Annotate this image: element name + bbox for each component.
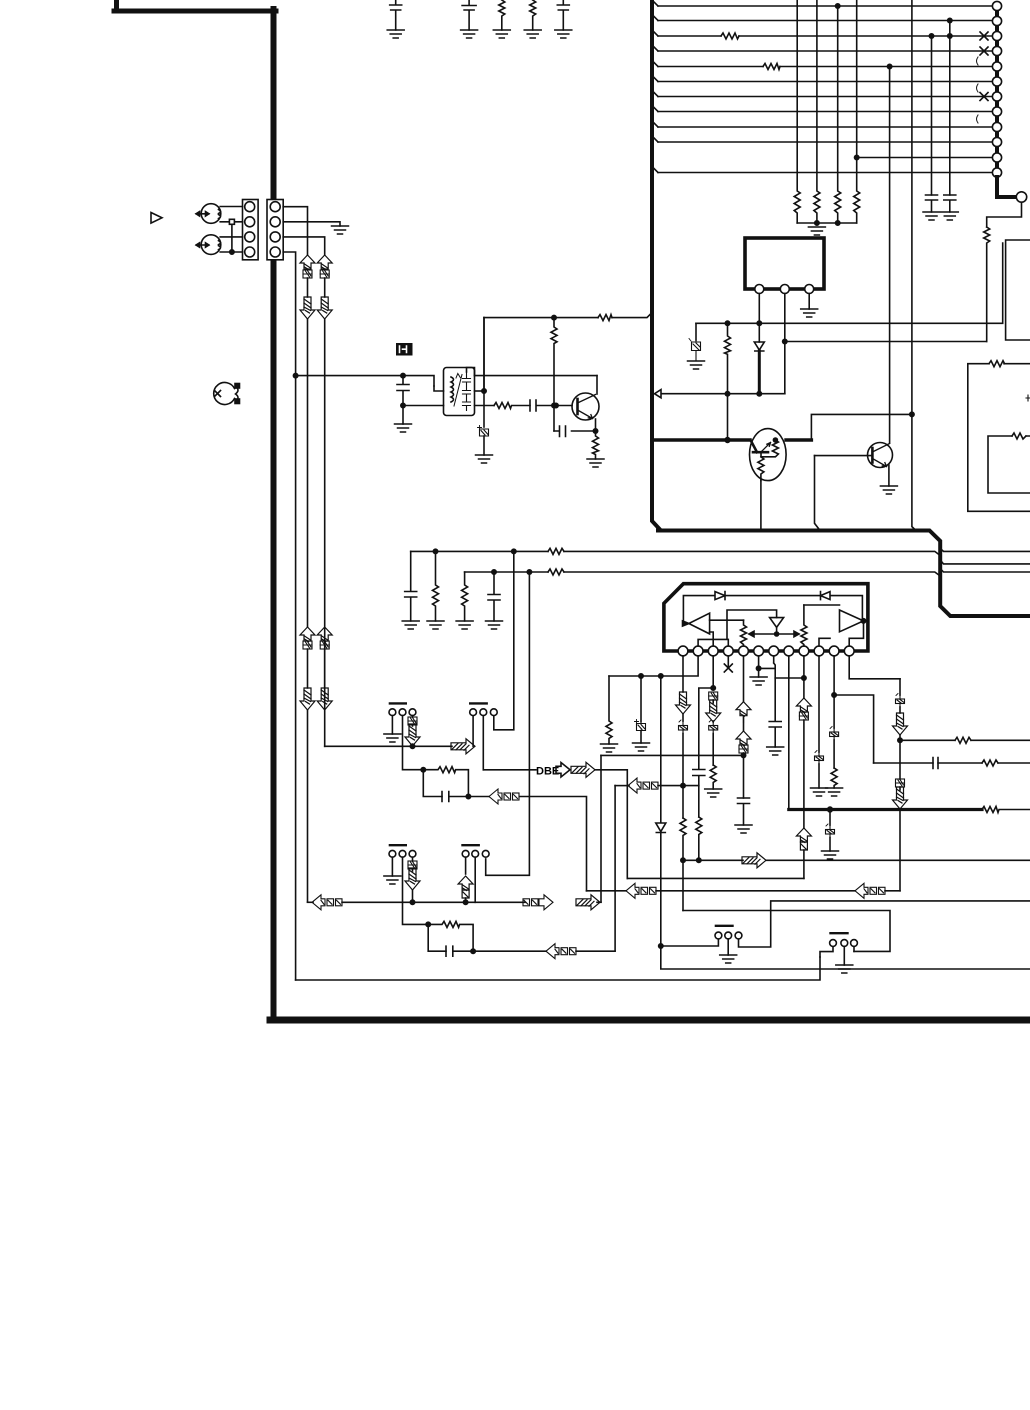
wire y969 <box>661 946 1030 969</box>
wire y902 end <box>597 901 601 903</box>
IC opamp2 out jog to pin12 <box>849 621 863 646</box>
pin7 column <box>774 656 776 721</box>
H3 mid circle column <box>403 857 429 924</box>
up connector arrow pair1 right <box>317 255 332 270</box>
electrolytic cap CE1 <box>478 426 489 456</box>
down connector arrow1 right <box>317 297 332 319</box>
wire pin6 to pin7 <box>759 667 776 669</box>
edge connector pins P1-P12 <box>992 1 1001 177</box>
wire into filter lower <box>403 405 444 407</box>
diode col continues <box>660 833 662 947</box>
pin10 column <box>818 656 820 752</box>
ground H3 <box>384 876 401 884</box>
thick audio out wire y809 <box>789 808 982 811</box>
digital transistor Q1 <box>750 429 787 481</box>
header H2 circles <box>470 709 497 716</box>
wire from pin to resistor column <box>987 203 1022 228</box>
wire y317 <box>484 313 652 318</box>
resistor R-740 <box>955 737 971 743</box>
node at x911 y414 <box>910 412 914 416</box>
pin11 column continue <box>833 695 835 728</box>
transistor Q2 <box>868 443 893 468</box>
resistor R-rail2 <box>548 569 564 575</box>
audio IC U1 box <box>664 584 868 651</box>
ground pin3col <box>705 789 722 797</box>
up arrow pin9 with boxes <box>796 698 811 720</box>
IC diode D2 <box>821 592 831 600</box>
resistor col3 <box>835 6 841 223</box>
thick wire Q1 to corner <box>786 438 811 441</box>
H1 left circle ground <box>391 716 393 734</box>
node w11 x856 <box>855 155 859 159</box>
down connector arrow2 right <box>317 688 332 710</box>
rail res column x435 <box>433 551 439 621</box>
mesh1 capacitor <box>442 792 468 802</box>
wire y951 to x615 <box>576 950 615 952</box>
wire y980 <box>296 957 820 980</box>
module pin 1 <box>755 285 764 294</box>
filter mid-right pin wire <box>475 390 485 392</box>
node w1 x837 <box>836 4 840 8</box>
arc mark 1 <box>977 57 979 65</box>
DBE right arrow outline <box>556 763 570 778</box>
up connector arrow pair1 left <box>300 255 315 270</box>
IC pot2 top wire to opamp2 <box>804 604 840 606</box>
mesh1 resistor <box>423 767 468 797</box>
header H6 bar <box>831 932 848 934</box>
node w3 x931 <box>929 34 933 38</box>
arc mark 2 <box>977 84 979 92</box>
bus wire 5 with resistor <box>658 66 992 68</box>
node opamp2 output <box>861 619 865 623</box>
ground zener <box>688 361 705 369</box>
boxes pair2 right <box>320 641 329 649</box>
ground H5 <box>720 955 737 963</box>
capacitor C-top1 <box>387 0 404 38</box>
IC down triangle <box>770 618 784 628</box>
capacitor C-763 inline <box>933 758 938 769</box>
mesh2 node left <box>426 922 430 926</box>
pin2 column to left rail <box>609 656 698 676</box>
no-connect x mark wire4 <box>980 47 988 55</box>
node rail2 x494 <box>492 570 496 574</box>
CN2 row1 wire <box>283 207 307 255</box>
resistor R-boxB-inner <box>1012 433 1026 439</box>
vertical x615 <box>614 786 616 951</box>
IC pin10 inner stub <box>819 638 830 646</box>
left arrow boxes y951 <box>546 944 576 959</box>
H2 left circle stub <box>472 716 474 747</box>
mesh2 capacitor <box>446 946 473 956</box>
ground x830 <box>822 851 839 859</box>
H6 left circle col <box>820 946 833 957</box>
board frame top-left vertical <box>114 0 119 11</box>
resistor col2 <box>814 0 820 223</box>
diode D-660 <box>656 823 666 833</box>
IC opamp1 triangle <box>689 613 710 634</box>
no-connect x mark wire7 <box>980 93 988 101</box>
ground C-IF <box>395 424 412 432</box>
node w2 x949 <box>948 18 952 22</box>
wire y902 left <box>308 901 314 903</box>
node mesh1 right <box>466 794 470 798</box>
pin6 stub <box>758 656 760 669</box>
wire y860 continue <box>766 859 1030 861</box>
node Q3 emitter <box>593 429 597 433</box>
wire jog into filter upper <box>434 386 444 391</box>
tiny cap pin11 <box>830 727 839 769</box>
main thick bus horizontal <box>658 531 1030 617</box>
capacitor C-col-931 <box>926 195 938 212</box>
wire y785 continue <box>658 785 699 787</box>
node pin2 on wire342 <box>783 339 787 343</box>
resistor R-w5 <box>763 64 780 70</box>
long vertical wire x324 <box>324 319 326 746</box>
pin12 column <box>849 656 900 679</box>
capacitor C-IF <box>397 376 409 406</box>
IC down triangle tip wire <box>776 627 778 634</box>
Q2 base wire <box>815 455 873 457</box>
bus wire 7 <box>658 96 992 98</box>
node rail1 x435 <box>433 549 437 553</box>
resistor R-top1 <box>493 0 510 38</box>
x900 continue <box>899 735 901 779</box>
left arrow boxes y890b <box>855 883 885 898</box>
mesh2 resistor <box>428 921 473 951</box>
pin9 column continue <box>803 720 805 828</box>
DBE rail y770 <box>483 769 536 771</box>
pin9 column <box>803 656 805 698</box>
wire y890 to x900 <box>885 890 900 892</box>
jack J2 <box>196 235 221 255</box>
wire y755 <box>601 754 744 756</box>
wire y890 continue <box>656 890 855 892</box>
node x900 y740 <box>898 738 902 742</box>
no-connect x pin4 <box>724 664 732 672</box>
left arrow boxes y902 <box>312 895 342 910</box>
node rail2 x529 <box>527 570 531 574</box>
vertical x601 <box>600 755 602 902</box>
resistor R-554 <box>551 318 557 431</box>
node diode col <box>659 674 663 678</box>
wire y746 <box>325 745 452 747</box>
thick cathode wire to node <box>758 351 761 394</box>
resistor R-base <box>494 403 530 409</box>
IC inner rail A <box>698 610 777 646</box>
header H6 circles <box>830 940 858 947</box>
IC pot1 <box>741 620 747 646</box>
edge connector body line <box>995 6 999 177</box>
thick branch wire to Q1 <box>652 438 750 441</box>
ground pin5 <box>735 825 752 833</box>
node pin11 y695 <box>832 693 836 697</box>
H1 mid circle column <box>403 716 424 770</box>
IF label black box <box>396 343 413 356</box>
up arrow H4 <box>458 876 473 902</box>
jack J1 wire top <box>220 206 242 208</box>
H3 right col to wire y902 <box>412 890 414 902</box>
down connector arrow2 left <box>300 688 315 710</box>
resistor col x609 <box>606 676 612 744</box>
vertical x484 electrolytic column <box>483 318 485 427</box>
pin8 column to thick wire <box>788 656 790 810</box>
bus wire 12 <box>658 172 992 174</box>
pin5 column <box>743 656 745 702</box>
rail cap column x494 <box>488 572 500 621</box>
wire y878 <box>627 877 804 879</box>
bus wire 6 <box>658 81 992 83</box>
IC opamp2 triangle <box>840 610 864 632</box>
left arrow boxes y785 <box>628 778 658 793</box>
H6 right circle stub <box>853 946 855 951</box>
common rail under resistors <box>797 222 857 224</box>
boxes pair1 left <box>303 270 312 278</box>
right box A (cut off) <box>1006 240 1030 340</box>
H4 mid circle to wire y902 <box>474 857 476 902</box>
node resistor col on wire323 <box>725 321 729 325</box>
ground x494 <box>486 621 503 629</box>
ground Q2 emitter <box>880 486 897 494</box>
wire y342 <box>785 341 987 343</box>
up connector arrow pair2 right <box>317 627 332 642</box>
tiny cap pin1 col <box>679 714 688 818</box>
vertical x513 to header H2 <box>494 551 514 729</box>
Q3 emitter junction <box>595 419 597 431</box>
node pin6 <box>756 666 760 670</box>
transistor Q3 <box>572 393 599 420</box>
bus wire 10 <box>658 141 992 143</box>
rail cap column x410 <box>405 551 417 621</box>
link wire between jack grounds <box>231 224 233 252</box>
bus wire 4 <box>658 50 992 52</box>
wire y860 <box>683 859 743 861</box>
supply rail wire2 y572 <box>465 569 1030 577</box>
ground CE2 <box>633 743 650 751</box>
module pin 3 <box>805 285 814 294</box>
resistor R-emitter <box>593 431 599 459</box>
node rail1 x513 <box>512 549 516 553</box>
ground x410 <box>402 621 419 629</box>
wire y902 mid <box>342 901 525 903</box>
long vertical from w5 to Q2 collector <box>889 67 891 444</box>
shielded module box U2 <box>745 238 824 289</box>
ground R-emitter <box>587 459 604 467</box>
diode D-pin1 <box>754 342 764 351</box>
Q3 collector wire <box>596 376 598 394</box>
bus wire 1 to connector <box>658 5 992 7</box>
boxes pair2 left <box>303 641 312 649</box>
node x830 on thick wire <box>828 807 833 812</box>
down connector arrow1 left <box>300 297 315 319</box>
wire y785 <box>615 785 629 787</box>
node H4 up arrow y902 <box>463 900 467 904</box>
up arrow pin5b with boxes <box>736 731 751 753</box>
node x554 on y317 <box>552 315 556 319</box>
x900 continue to y891 <box>899 809 901 891</box>
IC diode rail <box>683 596 862 624</box>
resistor col4 <box>854 0 860 223</box>
filter bottom-right wire <box>475 405 495 407</box>
ground pin6 <box>750 677 767 685</box>
wire pin9 to pin7col <box>775 677 804 679</box>
header H5 circles <box>715 932 742 939</box>
node resistor col on wire394 <box>725 392 729 396</box>
node resistor col on thick branch <box>725 438 730 443</box>
IC diode D1 <box>715 592 725 600</box>
resistor R-pin11 <box>831 768 837 788</box>
bus wire 2 <box>658 20 992 22</box>
connector block CN1 <box>243 200 259 260</box>
node pin3 y688 <box>711 686 715 690</box>
boxes+down arrow pin3 col <box>706 692 721 722</box>
wire y946 to H5 <box>661 939 719 946</box>
node cap403 top <box>401 373 405 377</box>
tiny mark right edge <box>1026 395 1030 401</box>
node H1 right col y746 <box>410 744 414 748</box>
H4 left circle to up arrow <box>465 857 467 874</box>
right arrow y860 <box>742 853 766 868</box>
IC pins 1-12 <box>678 646 854 656</box>
cap to ground stub <box>402 406 404 425</box>
node rail x816 <box>815 221 819 225</box>
ground pin7 <box>767 747 784 755</box>
bus wire taps <box>652 0 658 6</box>
pin1 column <box>682 656 684 692</box>
left arrow boxes y796 <box>489 789 519 804</box>
node pin5 y755 <box>741 753 745 757</box>
capacitor C-base <box>530 400 556 411</box>
electrolytic CE2 <box>635 676 646 743</box>
wire y910 from pin1col <box>683 911 890 952</box>
node H3 right col y902 <box>410 900 414 904</box>
ground H1 <box>384 734 401 742</box>
IC rail arrow into opamp1 <box>683 621 690 626</box>
ground under C-949 <box>941 212 958 220</box>
thick wire from connector bottom <box>997 177 1015 197</box>
board frame bottom horizontal <box>270 1017 1030 1024</box>
main thick bus vertical <box>652 0 660 530</box>
base wire to Q3 <box>556 405 572 407</box>
ground H6 <box>836 965 853 973</box>
zener column from wire323 <box>695 323 697 340</box>
resistor col1 <box>794 0 800 223</box>
no-connect x mark wire3 <box>980 32 988 40</box>
resistor R-698col <box>696 817 702 860</box>
big down arrow x900 <box>893 713 908 735</box>
right arrow y902 <box>576 895 600 910</box>
node on x295 <box>293 373 297 377</box>
ground under resistor rail <box>808 227 825 235</box>
collector rail y375 <box>475 375 598 377</box>
up arrow pin5a <box>736 702 751 731</box>
test square on J1 wire <box>229 219 234 224</box>
right box B outer <box>968 364 1030 512</box>
header H3 bar <box>390 844 406 846</box>
node x484 on filter pin <box>482 389 486 393</box>
header H1 circles <box>389 709 416 716</box>
pin4 stub with x <box>727 656 729 667</box>
vertical x529 to header H4 <box>486 572 530 875</box>
wire corner up to y414 <box>811 414 912 440</box>
ground pin11 <box>826 788 843 796</box>
header H4 circles <box>462 850 489 857</box>
CN2 row3 wire <box>283 237 325 255</box>
module pin 2 <box>780 285 789 294</box>
resistor col continues to thick bus <box>727 394 729 440</box>
vertical x307 to corner <box>307 710 309 902</box>
diode column x660 <box>660 676 662 823</box>
wire y763 <box>874 762 1030 764</box>
ground x435 <box>427 621 444 629</box>
pin6 ground stub <box>758 668 760 677</box>
bus tap wire y564 <box>940 560 1030 564</box>
wire y901 right <box>739 901 1030 947</box>
Q2 base wire corner to bus <box>815 456 819 529</box>
open triangle marker <box>151 213 162 224</box>
IC pin3 inner stub <box>710 632 714 646</box>
node pin1col on wire394 <box>757 392 761 396</box>
module pin2 wire down <box>784 294 786 394</box>
resistor R-right-edge <box>984 227 990 342</box>
capacitor C-col-949 <box>944 195 956 212</box>
module pin3 ground stub <box>808 294 810 310</box>
wire y890 <box>587 890 627 892</box>
capacitor C-emitter <box>554 426 596 437</box>
resistor R-763 inline <box>982 760 998 766</box>
down connector arrow pin1 <box>676 692 691 714</box>
tiny cap pin10 <box>815 751 824 789</box>
header H4 bar <box>463 844 479 846</box>
pin5 column continue <box>743 753 745 798</box>
resistor R-boxB-top <box>989 361 1005 367</box>
board frame left vertical <box>271 9 277 1020</box>
node x554 on base wire <box>552 403 556 407</box>
wire y695 to x873 <box>834 695 874 763</box>
ceramic filter CF1 <box>444 368 475 416</box>
jack J1 wire bottom <box>220 221 242 223</box>
capacitor C-pin5 <box>738 798 750 825</box>
arc mark 3 <box>977 115 979 123</box>
node x698 y860 <box>697 858 701 862</box>
corner x484 down <box>483 318 485 391</box>
IC opamp2 out to edge <box>864 620 868 622</box>
tiny cap x900 <box>896 694 905 714</box>
mesh1 node left <box>421 768 425 772</box>
module pin1 wire down <box>758 294 760 343</box>
wire y770 to corner <box>595 770 627 879</box>
header H3 circles <box>389 850 416 857</box>
boxes+down arrow x900 low <box>893 779 908 809</box>
node w3 x949 <box>948 34 952 38</box>
left arrow boxes y890 <box>626 883 656 898</box>
IC pot2 <box>801 605 807 646</box>
ground x609 <box>601 744 618 752</box>
H3 right circle boxes+down arrow <box>405 857 420 890</box>
ground x463 <box>456 621 473 629</box>
mesh2 left drop <box>428 924 446 951</box>
IC opamp1 output to pin1? none; input wire <box>710 619 744 621</box>
CN2 row2 wire to ground <box>283 222 340 226</box>
big up arrow pin9 low <box>796 828 811 850</box>
ground module pin3 <box>801 309 818 317</box>
wire segment arrows1 left <box>307 278 309 297</box>
right arrow on y770 <box>571 762 595 777</box>
H6 mid ground stub <box>843 946 845 965</box>
H1 right circle boxes+down arrow <box>405 716 420 746</box>
long vertical wire x307 <box>307 319 309 627</box>
node wiper center <box>775 632 779 636</box>
IC pin4 stub to railA jog <box>727 639 729 646</box>
